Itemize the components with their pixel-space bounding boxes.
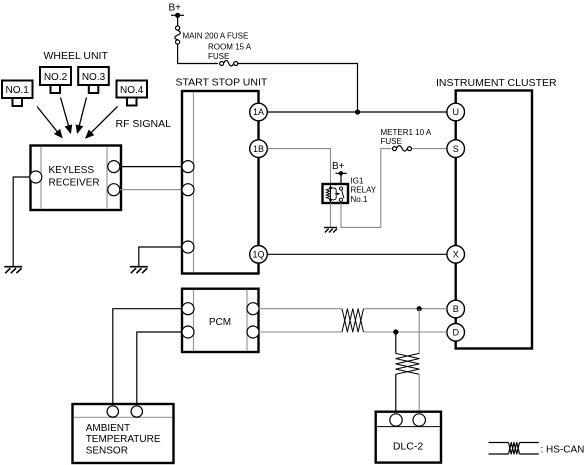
label METER1 10 A FUSE [381, 128, 432, 146]
svg-text:1Q: 1Q [252, 250, 264, 260]
wire relay switch to METER1 fuse (gray) [341, 149, 391, 228]
twisted pair (drop to DLC-2) [396, 353, 419, 374]
junction on D wire [393, 329, 398, 334]
wire pcm pin1 to ambient sensor [113, 309, 182, 406]
wire relay coil to ground (gray) [330, 203, 332, 227]
RF signal arrow from NO.1 [37, 107, 62, 138]
dlc-2 pin 2 [413, 414, 425, 426]
RF signal arrow from NO.2 [61, 98, 71, 134]
start stop unit U2 [182, 91, 259, 274]
svg-text:AMBIENT: AMBIENT [86, 423, 130, 434]
wire pcm CAN-H to B (gray) [259, 308, 342, 310]
wire start stop unit to ground [139, 247, 182, 267]
wire 1A to U [267, 111, 447, 113]
svg-text:B+: B+ [169, 3, 182, 14]
svg-text:FUSE: FUSE [381, 137, 402, 146]
terminal D [447, 324, 465, 342]
relay IG1 RELAY No.1 [323, 184, 349, 203]
keyless receiver U1 [31, 146, 122, 211]
RF signal arrow from NO.3 [77, 98, 86, 134]
svg-text:IG1: IG1 [351, 177, 364, 186]
svg-text:RECEIVER: RECEIVER [49, 177, 100, 188]
svg-text:PCM: PCM [209, 317, 231, 328]
terminal 1B [250, 140, 268, 158]
wire pcm CAN-L to D (gray) [259, 331, 342, 333]
start stop unit left pin a [182, 161, 194, 173]
twisted pair (pcm to cluster) [342, 309, 364, 332]
pcm U4 [182, 289, 259, 352]
wheel unit NO.3 [78, 67, 109, 93]
svg-text:B+: B+ [332, 161, 345, 172]
wire 1B to IG1 relay coil (gray) [267, 149, 330, 184]
wire MAIN fuse down and right to ROOM fuse [178, 44, 218, 63]
wire keyless pin2 to start stop unit (gray) [120, 189, 182, 191]
wire 1Q to X [267, 253, 447, 255]
keyless receiver right pin 2 [108, 184, 120, 196]
pcm left pin 1 [182, 303, 194, 315]
ambient temperature sensor [73, 404, 174, 463]
svg-text:START STOP UNIT: START STOP UNIT [176, 76, 268, 88]
start stop unit left pin b [182, 184, 194, 196]
keyless receiver left pin [30, 171, 42, 183]
wheel unit NO.4 [117, 81, 148, 106]
pcm right pin 1 [247, 303, 259, 315]
svg-text:RELAY: RELAY [351, 186, 377, 195]
svg-text:NO.2: NO.2 [44, 72, 68, 83]
svg-text:X: X [453, 250, 459, 260]
junction on B wire [417, 306, 422, 311]
pcm right pin 2 [247, 326, 259, 338]
wheel unit NO.2 [40, 67, 71, 93]
svg-text:DLC-2: DLC-2 [393, 440, 424, 452]
ambient sensor pin 2 [131, 406, 142, 417]
junction on 1A-U wire [355, 109, 360, 114]
terminal 1Q [250, 246, 268, 264]
svg-text:ROOM 15 A: ROOM 15 A [208, 42, 252, 51]
wire METER1 fuse to S (gray) [412, 148, 447, 150]
svg-text:MAIN 200 A FUSE: MAIN 200 A FUSE [183, 31, 249, 40]
wire keyless pin1 to start stop unit [120, 166, 182, 168]
svg-text:NO.1: NO.1 [6, 85, 30, 96]
wire B+ to MAIN fuse [177, 15, 179, 25]
svg-text:NO.4: NO.4 [120, 85, 144, 96]
terminal B [447, 300, 465, 318]
svg-text:KEYLESS: KEYLESS [49, 165, 95, 176]
fuse MAIN 200 A FUSE [175, 26, 248, 44]
svg-text:D: D [452, 328, 459, 338]
svg-text:METER1 10 A: METER1 10 A [381, 128, 432, 137]
legend twisted pair symbol [489, 443, 539, 455]
dlc-2 connector [376, 412, 441, 463]
label IG1 RELAY No.1 [351, 177, 377, 204]
svg-text:B: B [453, 304, 459, 314]
ground (keyless receiver) [4, 267, 22, 274]
pcm left pin 2 [182, 326, 194, 338]
svg-text:INSTRUMENT CLUSTER: INSTRUMENT CLUSTER [436, 77, 557, 89]
ground (start stop unit) [130, 267, 148, 274]
wire junctions down to twisted drop [418, 309, 420, 354]
svg-text:WHEEL UNIT: WHEEL UNIT [44, 50, 109, 62]
svg-text:No.1: No.1 [351, 195, 368, 204]
terminal 1A [250, 103, 268, 121]
wire pcm pin2 to ambient sensor [137, 332, 182, 406]
fuse ROOM 15 A FUSE [208, 42, 252, 66]
wire twisted drop to DLC-2 pins [395, 374, 397, 414]
svg-text:1A: 1A [253, 107, 264, 117]
svg-text:FUSE: FUSE [208, 52, 229, 61]
keyless receiver right pin 1 [108, 161, 120, 173]
RF signal arrow from NO.4 [86, 107, 118, 139]
svg-text:TEMPERATURE: TEMPERATURE [86, 434, 161, 445]
wire ROOM fuse to junction above U [238, 64, 358, 113]
svg-text:: HS-CAN: : HS-CAN [541, 444, 584, 455]
svg-text:RF SIGNAL: RF SIGNAL [116, 118, 172, 130]
wire B+ to relay switch [340, 173, 342, 187]
fuse METER1 10 A [393, 146, 412, 151]
start stop unit left pin c (ground) [182, 241, 194, 253]
svg-text:U: U [452, 107, 459, 117]
node B+ (battery feed label) [169, 3, 185, 18]
dlc-2 pin 1 [390, 414, 402, 426]
node B+ (relay feed) [332, 161, 347, 176]
instrument cluster U3 [456, 91, 532, 349]
terminal S [447, 140, 465, 158]
wheel unit NO.1 [2, 81, 33, 107]
svg-text:S: S [453, 144, 459, 154]
ground (relay) [324, 228, 337, 233]
wire keyless receiver to ground [13, 177, 30, 267]
terminal U [447, 103, 465, 121]
ambient sensor pin 1 [107, 406, 118, 417]
svg-text:NO.3: NO.3 [82, 72, 106, 83]
svg-text:1B: 1B [253, 144, 264, 154]
terminal X [447, 246, 465, 264]
svg-text:SENSOR: SENSOR [86, 446, 128, 457]
